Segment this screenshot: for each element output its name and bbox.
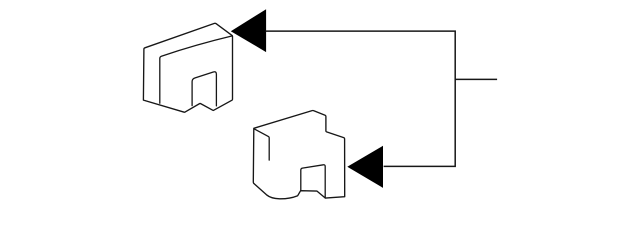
bracket part 2 outer outline [253, 111, 344, 199]
tick branch on vertical leader [455, 78, 497, 80]
bracket part 2 front-left depth edge [254, 129, 269, 160]
bracket part 1 arch notch [192, 72, 216, 106]
bracket part 1 inner front-top edge and front-left edge [160, 36, 233, 103]
leader line from arrow 1: right, down, to arrow 2 [266, 31, 456, 166]
bracket part 2 arch notch [301, 165, 325, 198]
arrow 2 (points at part 2) [347, 146, 383, 188]
arrow 1 (points at part 1) [231, 9, 266, 52]
bracket part 1 outer outline [143, 23, 232, 112]
